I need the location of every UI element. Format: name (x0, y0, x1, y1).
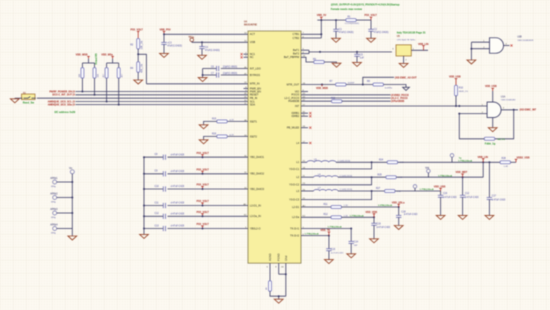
wire gate1 input 1 (471, 41, 489, 43)
AND gate U1B (483, 38, 503, 54)
svg-text:YB0_DHIO1: YB0_DHIO1 (250, 155, 265, 159)
svg-text:@5V5_OUTPUT=5.0V@SYS_P5V5OUT=4: @5V5_OUTPUT=5.0V@SYS_P5V5OUT=4.5V(4.3V)S… (331, 2, 400, 6)
power flag PS5_VOLT on C11 row (197, 200, 210, 206)
svg-text:d-47uF-C420: d-47uF-C420 (171, 226, 185, 228)
svg-text:1.7TB@20mA: 1.7TB@20mA (305, 233, 319, 236)
svg-text:TP1a: TP1a (188, 37, 194, 39)
wire R17 to bus 4 (106, 78, 108, 102)
rail wire VDD_5V to R1 (317, 19, 345, 21)
svg-text:47uF(C-D420): 47uF(C-D420) (167, 46, 182, 48)
power flag PS5_VOLT above R2 (131, 29, 144, 39)
svg-text:22pF(C-0603): 22pF(C-0603) (223, 73, 238, 75)
svg-text:22pF(C-0603): 22pF(C-0603) (223, 67, 238, 69)
inductor L5 (307, 159, 351, 162)
resistor R8 (367, 81, 393, 89)
junction rail at CTB drop (320, 19, 322, 21)
wire R7 to R8 (346, 84, 373, 86)
capacitor C8 (155, 154, 185, 160)
svg-text:d-1K: d-1K (229, 134, 234, 136)
IC U4 MAX14676E body (248, 31, 301, 263)
wire BaT_PBPPM to R9 (301, 57, 314, 62)
svg-text:PS5_VOLT: PS5_VOLT (197, 200, 210, 203)
test point TP6 on L1 rail (450, 154, 454, 163)
svg-text:1.7TB@20mA: 1.7TB@20mA (350, 214, 364, 217)
power flag PS5_VOLT on C10 row (197, 184, 210, 190)
ground for C4 (198, 55, 207, 59)
power flag VDD_VDLa (392, 201, 405, 207)
svg-text:680R_1%: 680R_1% (459, 91, 468, 93)
wire ISET2 row (227, 135, 248, 137)
wire C12 row to IC (168, 215, 249, 217)
resistor R7 (330, 81, 356, 86)
svg-text:Reed_Sw: Reed_Sw (23, 101, 34, 105)
wire ISET1 row (227, 120, 248, 122)
svg-text:VDD_USB: VDD_USB (449, 75, 461, 78)
svg-text:TK-D-I1: TK-D-I1 (290, 226, 300, 230)
IC right pin names (284, 32, 300, 237)
svg-text:ACT: ACT (250, 32, 256, 36)
svg-text:BaT2: BaT2 (293, 52, 300, 56)
ground at reed switch (10, 98, 19, 103)
wire C11 row left (143, 205, 163, 207)
capacitor C17 on L1 rail (487, 162, 506, 215)
inductor L6 (314, 174, 353, 177)
wire gate1 input 2 (470, 42, 489, 50)
svg-text:YB0_DHIO3: YB0_DHIO3 (250, 187, 265, 191)
svg-text:AGND: AGND (268, 253, 272, 261)
test point Vin (69, 168, 74, 174)
wire L2-Da to R12 (301, 216, 331, 218)
wire R6 to SCL bus (81, 78, 83, 92)
resistor R28 (500, 158, 511, 168)
svg-text:(XI2-EMIC_INT: (XI2-EMIC_INT (520, 109, 537, 112)
gate2 designator U1A (501, 95, 516, 101)
no-connect IDRB2 (301, 115, 311, 117)
wire R20 to ground (204, 136, 217, 139)
ground for regulator (399, 63, 408, 67)
gate2 output wire (501, 108, 518, 111)
wire joining pullup pair 1 tops (82, 59, 94, 68)
wire gate2 feedback input (458, 113, 487, 115)
svg-text:VDD_VDLa: VDD_VDLa (392, 201, 405, 204)
wire R18 to bus 5 (118, 78, 120, 105)
gate2 ground pin wire (492, 118, 494, 128)
svg-text:d-47uF-C420: d-47uF-C420 (171, 203, 185, 205)
svg-text:VDD_MDT: VDD_MDT (456, 171, 468, 174)
ground for C12b (458, 215, 467, 219)
capacitor C5 (354, 52, 364, 63)
svg-text:L2-D1_IN: L2-D1_IN (250, 203, 261, 207)
svg-text:PS5_VOLT: PS5_VOLT (131, 29, 144, 32)
svg-text:d-47uF-C420: d-47uF-C420 (465, 197, 479, 199)
svg-text:R12: R12 (324, 214, 329, 216)
capacitor C15 (326, 236, 344, 260)
svg-text:33P: 33P (354, 245, 358, 247)
resistor R16 (93, 68, 99, 79)
resistor R17 (103, 68, 108, 79)
jumper APRd2 (50, 193, 58, 204)
wire net CVBB2_POCI3 (301, 94, 409, 97)
resistor R6 (79, 68, 84, 79)
wire PbABIDB to R22 (301, 100, 331, 102)
wire ACT pin to VDD_P5V (164, 33, 248, 35)
capacitor C14 (349, 229, 359, 254)
capacitor C4 (199, 42, 220, 55)
wire R10 to INT net (455, 96, 457, 106)
ground for gate1 inputs (467, 60, 476, 64)
svg-text:R24: R24 (379, 159, 384, 161)
wire R25 to rail B (396, 174, 483, 178)
ground for divider (134, 80, 143, 84)
wire reed switch net (37, 97, 248, 99)
svg-text:10K: 10K (97, 73, 99, 77)
svg-text:1.4R: 1.4R (504, 166, 509, 168)
ground for R15 (199, 125, 208, 129)
ground for C5 (353, 62, 362, 66)
svg-text:PS5_VOLT: PS5_VOLT (197, 152, 210, 155)
svg-text:d-47uF-C420: d-47uF-C420 (404, 214, 418, 216)
capacitor C16 on L3 rail (438, 191, 457, 215)
svg-text:VBB_P5V: VBB_P5V (160, 29, 171, 32)
svg-text:VDD_MSB: VDD_MSB (76, 54, 88, 57)
wire R11 to C18 (342, 204, 400, 208)
svg-text:C12: C12 (465, 193, 470, 195)
svg-text:VDD_MSB: VDD_MSB (316, 87, 328, 90)
junction bottom ground rail (278, 295, 280, 297)
ground for C17 (485, 215, 494, 219)
svg-text:USB: USB (250, 40, 256, 44)
wire gate1 inputs to ground (470, 49, 472, 60)
svg-text:10K_1%: 10K_1% (142, 41, 144, 50)
wire R2 to R4 (137, 49, 139, 62)
svg-text:Fdbk_1g: Fdbk_1g (485, 141, 496, 145)
rail wire R1 to PS5_VOLT (356, 19, 371, 21)
wire MTR_OUT to R7 (301, 84, 335, 86)
wire R9 to ground (324, 62, 336, 63)
wire net AMBIQUE_I2C0_SCL (48, 101, 248, 104)
svg-text:47uF(C-D420): 47uF(C-D420) (374, 32, 389, 34)
resistor R15 (212, 118, 234, 123)
wire BaT pins join (301, 50, 309, 53)
wire L1 pin to inductor (301, 161, 307, 163)
svg-text:R15: R15 (212, 118, 217, 120)
power flag VDD_LIN at regulator output (418, 43, 429, 51)
power flag PS5_VOLT on C9 row (197, 168, 210, 174)
resistor R10 (455, 85, 469, 96)
IC bottom pin names AGND PGND GNd (268, 253, 288, 261)
svg-text:TK-D-I2: TK-D-I2 (290, 234, 300, 238)
svg-text:INT_LDO: INT_LDO (250, 66, 261, 70)
svg-text:C17: C17 (492, 195, 497, 197)
no-connect NC2 stub (241, 56, 249, 58)
no-connect gate1 output (510, 44, 512, 46)
svg-text:3.3TB@20mA: 3.3TB@20mA (378, 204, 392, 207)
ground for C16 (436, 215, 445, 219)
gate1 designator U1B (517, 37, 534, 42)
resistor R5 on AGND (266, 281, 272, 292)
wire APRd1 to chain (57, 181, 74, 183)
capacitor C13 (155, 225, 185, 231)
svg-text:1mH/Ra: 1mH/Ra (385, 87, 393, 89)
svg-text:1.7TB@20mA: 1.7TB@20mA (328, 226, 342, 229)
output arrow marker (403, 87, 410, 90)
svg-text:PS5_VOLT: PS5_VOLT (197, 184, 210, 187)
inductor L7 (314, 188, 353, 191)
ground for C15 (325, 260, 334, 264)
wire C8 row to IC (168, 156, 249, 158)
ground for C14 (347, 254, 356, 258)
wire C12 row left (143, 215, 163, 217)
svg-text:(XPbABIDB: (XPbABIDB (391, 100, 405, 103)
wire C13 row to IC (168, 228, 249, 230)
svg-text:YB0_DHIO2: YB0_DHIO2 (250, 172, 265, 176)
test point TP1 (188, 37, 194, 41)
svg-text:YB0L2-O: YB0L2-O (250, 226, 261, 230)
wire net AMBIQUE_I2C0_SDA (48, 104, 248, 107)
resistor R18 (117, 68, 123, 79)
svg-text:d-47uF-C420: d-47uF-C420 (171, 186, 185, 188)
svg-text:R27: R27 (376, 188, 381, 190)
wire C9 row to IC (168, 173, 249, 175)
wire R15 to ground (204, 121, 217, 124)
svg-text:PS5_VOLT: PS5_VOLT (365, 14, 378, 17)
resistor R11 (324, 204, 349, 209)
svg-text:(XI2-EMIC_A2-OUT: (XI2-EMIC_A2-OUT (395, 76, 417, 79)
ground for R20 (199, 140, 208, 144)
jumper APRd1 (50, 177, 58, 188)
svg-text:I2C0-C_INT_OUT (X: I2C0-C_INT_OUT (X (52, 94, 75, 97)
resistor R2 (130, 38, 143, 49)
wire GNd pin (281, 263, 287, 296)
svg-text:R22: R22 (331, 98, 336, 100)
svg-text:Female needs max review: Female needs max review (331, 7, 362, 11)
svg-text:1.7TB@20mA: 1.7TB@20mA (458, 159, 472, 162)
wire joining pullup pair 2 tops (107, 59, 119, 68)
wire TK-D-I2 row (301, 233, 330, 237)
svg-text:L2-Da_IN: L2-Da_IN (250, 214, 261, 218)
test point TP4 (413, 185, 417, 191)
svg-text:U1B: U1B (517, 37, 522, 39)
svg-text:C13: C13 (155, 225, 160, 227)
capacitor C7 on BYPASS pin (203, 72, 248, 77)
wire R28 to VDD2_USB (511, 161, 516, 163)
resistor R22 (331, 98, 342, 103)
svg-text:RESET: RESET (250, 93, 259, 97)
feedback wire loop (495, 110, 514, 139)
svg-text:1.7TB@20mA: 1.7TB@20mA (420, 188, 434, 191)
capacitor C11 (155, 202, 185, 208)
capacitor C3 (161, 34, 182, 53)
resistor R27 (376, 188, 401, 193)
resistor R1 (345, 16, 360, 25)
resistor R4 (130, 62, 143, 73)
svg-text:VDD_VDB: VDD_VDB (365, 211, 377, 214)
svg-text:74HC1G08DBVR: 74HC1G08DBVR (517, 40, 534, 42)
svg-text:ISET2: ISET2 (250, 134, 258, 138)
ground for gate2 (488, 128, 497, 132)
regulator ground pin wire (404, 56, 408, 63)
AND gate U1A (482, 102, 501, 118)
svg-text:d-47uF-C420: d-47uF-C420 (492, 199, 506, 201)
wire L2 pin to inductor (301, 176, 314, 178)
wire stub to bottom ground (278, 296, 280, 299)
wire TK-D-I1 row (301, 226, 352, 230)
reed switch S1 (22, 93, 36, 104)
svg-text:d-47uF-C420: d-47uF-C420 (377, 227, 391, 229)
power flag PS5_VOLT on C13 row (197, 223, 210, 229)
svg-text:NC: NC (250, 55, 254, 59)
power flag VDD_USB above R10 (449, 75, 461, 85)
capacitor C2 (368, 20, 388, 38)
wire R8 to output arrow (384, 85, 407, 88)
wire R22 to net label (342, 100, 405, 103)
wire divider tap to MTR_IN (138, 54, 146, 84)
ground for R9 (332, 63, 341, 67)
wire net I2C0-C_INT_OUT (52, 94, 248, 97)
svg-text:PS5_VOLT: PS5_VOLT (197, 211, 210, 214)
power flag VDD_P5V (net to pin ACT) (160, 29, 171, 35)
ground for C3 (160, 53, 169, 57)
svg-text:MTR_IN: MTR_IN (250, 82, 260, 86)
wire CTB pins to rail (301, 20, 322, 38)
svg-text:Fitted R5: Fitted R5 (94, 53, 98, 64)
gate1 output stub (504, 43, 510, 45)
wire tap to A2-OUT label (363, 77, 394, 84)
wire Y0-D-C3 feedback (301, 191, 372, 200)
IC left pin numbers (243, 33, 247, 229)
svg-text:d-47uF-C420: d-47uF-C420 (443, 197, 457, 199)
node junction on ACT wire (163, 33, 165, 35)
regulator U5 body (396, 45, 411, 56)
wire L3 rail (338, 190, 384, 192)
ground for cap row bus (140, 234, 149, 238)
svg-text:APRd1: APRd1 (50, 177, 58, 180)
svg-text:R28: R28 (502, 158, 507, 160)
svg-text:CTB1: CTB1 (293, 32, 300, 36)
svg-text:C16: C16 (443, 193, 448, 195)
svg-text:APRd4: APRd4 (50, 224, 58, 227)
wire C11 row to IC (168, 205, 249, 207)
svg-text:SDA: SDA (250, 103, 256, 107)
svg-text:L2-Da: L2-Da (292, 215, 300, 219)
feedback wire to input (459, 114, 484, 139)
power flag VDD_MSB over pullup pair 1 (76, 54, 90, 59)
test point TP5 (425, 168, 430, 177)
svg-text:VBB_LIN: VBB_LIN (478, 156, 489, 159)
svg-text:0.125R(R0603): 0.125R(R0603) (345, 23, 360, 25)
capacitor C19 (371, 217, 390, 239)
svg-text:+C3: +C3 (167, 43, 172, 45)
power flag VDD_MDT (456, 171, 468, 177)
wire R5 to ground rail (270, 291, 286, 296)
svg-text:Y0-D-C3: Y0-D-C3 (289, 198, 300, 202)
wire C8 row left (143, 156, 163, 158)
svg-text:C10: C10 (155, 186, 160, 188)
jumper APRd3 (50, 208, 58, 219)
resistor R24 (379, 159, 404, 164)
svg-text:GNd: GNd (284, 255, 288, 261)
wire AGND pin stub (267, 263, 270, 281)
jumper APRd4 (50, 224, 58, 235)
wire ground to S1 (15, 97, 23, 99)
power flag VDD2_USB (515, 156, 530, 162)
svg-text:C12: C12 (155, 213, 160, 215)
svg-text:MAX14676E: MAX14676E (244, 24, 257, 27)
svg-text:1M_1%: 1M_1% (497, 139, 504, 141)
svg-text:VDD_USB: VDD_USB (434, 185, 446, 188)
svg-text:L2-D1: L2-D1 (292, 205, 300, 209)
svg-text:INT: INT (295, 104, 300, 108)
power flag VDD_TK (320, 229, 330, 235)
svg-text:47uF(C-D420): 47uF(C-D420) (339, 32, 354, 34)
svg-text:47K_1%: 47K_1% (142, 64, 144, 73)
no-connect IDRB1 (301, 112, 311, 114)
svg-text:U1A: U1A (501, 95, 506, 98)
svg-text:R20: R20 (212, 133, 217, 135)
svg-text:VDD_MSa: VDD_MSa (101, 54, 113, 57)
power flag VDD_USB on L3 rail (434, 185, 446, 191)
regulator U5 designator (397, 36, 416, 41)
wire APRd4 to chain (57, 228, 73, 230)
capacitor C12b on rail B (460, 177, 479, 215)
ground at IC bottom (274, 299, 283, 303)
no-connect L4 (301, 142, 311, 144)
svg-text:1uF: 1uF (360, 57, 365, 59)
wire C10 row to IC (168, 188, 249, 190)
vertical bus for cap rows (143, 157, 145, 234)
svg-text:PS5_VOLT: PS5_VOLT (197, 168, 210, 171)
junction at C4 tap (201, 41, 203, 43)
svg-text:APRd3: APRd3 (50, 208, 58, 211)
wire L2 rail (338, 176, 386, 178)
svg-text:Y0-D-C2: Y0-D-C2 (289, 183, 300, 187)
svg-text:I2C address 0x29: I2C address 0x29 (54, 110, 75, 114)
power flag VDD_LIN on L1 rail (478, 156, 489, 163)
svg-text:CTB2: CTB2 (293, 36, 300, 40)
svg-text:PS5_VOLT: PS5_VOLT (197, 223, 210, 226)
wire Y0-D-C2 feedback (301, 177, 372, 185)
power flag PS5_VOLT on C8 row (197, 152, 210, 158)
note over regulator (397, 31, 426, 35)
svg-text:1.7TB@20mA: 1.7TB@20mA (438, 174, 452, 177)
capacitor C9 (155, 171, 185, 177)
IC left pin names (250, 32, 265, 230)
capacitor C10 (155, 186, 185, 192)
wire R16 to SDA bus (94, 78, 96, 96)
wire R4 to ground (137, 72, 139, 80)
power flag VDD_MSB below MTR_OUT wire (316, 85, 328, 91)
svg-text:PGND: PGND (277, 253, 281, 261)
capacitor C1 (333, 20, 353, 38)
wire C9 row left (143, 173, 163, 175)
wire VIO stub (301, 91, 308, 93)
svg-text:BaT1: BaT1 (293, 48, 300, 52)
svg-text:C18: C18 (401, 212, 406, 214)
svg-text:PbABIDB: PbABIDB (288, 99, 299, 103)
svg-text:TP5: TP5 (425, 168, 430, 170)
svg-text:C14: C14 (354, 242, 359, 244)
wire BaT rail to regulator (309, 51, 392, 53)
svg-text:VBB_LIN: VBB_LIN (418, 43, 429, 46)
wire L1 rail (336, 161, 387, 163)
capacitor C12 (155, 213, 185, 219)
IC right pin numbers (303, 33, 306, 236)
svg-text:MTR_OUT: MTR_OUT (287, 82, 300, 86)
resistor R25 (378, 174, 403, 179)
no-connect PB_WLED (301, 127, 311, 129)
IC stub pin 9 (244, 88, 249, 90)
svg-text:10K: 10K (79, 73, 81, 77)
